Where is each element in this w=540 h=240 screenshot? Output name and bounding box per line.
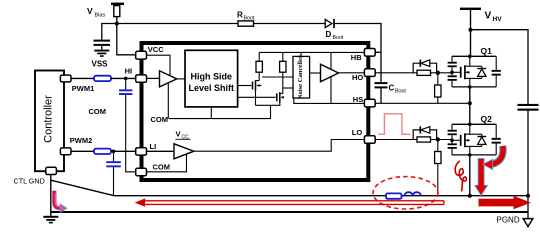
transistor Q2 [448,114,501,157]
resistor gate Q1 [417,70,431,75]
wire LI internal [146,150,174,152]
wire LI cap to ground slant [113,167,115,195]
wire R_Boot to D_Boot [254,23,326,25]
wire noise canceller to HS rail [294,98,365,103]
svg-text:Boot: Boot [333,35,344,41]
svg-text:Bias: Bias [95,13,106,19]
svg-text:VSS: VSS [92,60,109,69]
wire V_HV down to Q1 [470,10,472,56]
resistor (bias, vertical) [114,5,120,24]
node Q2 gate divider [436,137,440,141]
wire HO to gate network Q1 [375,72,417,74]
wire top rail to R_Boot [117,23,238,25]
svg-text:High Side: High Side [191,71,233,81]
wire Q1 source to HS node [469,87,471,124]
capacitor C_Boot [375,82,388,103]
red ringing waveform [455,161,466,192]
svg-text:PWM1: PWM1 [72,84,95,93]
svg-text:PGND: PGND [497,215,520,224]
wire HI cap to COM pin [126,95,136,172]
resistor gate Q2 [417,137,431,142]
resistor gate-source Q1 [435,73,441,104]
resistor parasitic (PWM2, blue) [94,149,111,154]
block High Side Level Shift [185,50,238,107]
wire COM pin to low side buffer [146,155,186,172]
svg-text:Q2: Q2 [481,114,493,124]
label C_Boot [389,84,407,95]
wire HB pin stub [375,51,382,53]
wire to decoupling cap [102,24,117,40]
wire to LI pin [111,150,136,152]
wire PWM1 to HI [71,77,94,79]
wire internal HB rail [259,51,365,53]
wire noise canceller to output buffer [310,72,321,74]
diode anti-parallel Q1 gate [413,60,436,73]
svg-text:Noise Canceller: Noise Canceller [297,55,304,99]
op-amp output buffer (high side) [321,64,339,81]
svg-text:Controller: Controller [42,95,54,143]
transistor M1 (level shift) [238,80,262,105]
wire internal COM rail [169,105,271,118]
pin PWM1 [60,75,94,93]
V_HV supply bar [460,8,481,10]
wire CTL GND down [50,175,52,216]
capacitor (VSS decoupling) [94,40,111,50]
node Q1 gate divider [436,71,440,75]
wire M1 drain to noise canceller [262,76,293,78]
wire HS node to Q1 source [375,102,470,104]
wire resistor to Q2 gate [431,139,453,141]
inductor parasitic trace (blue) [405,192,421,196]
op-amp low side buffer [174,144,194,159]
op-amp input buffer (HI channel) [160,71,177,87]
wire level-shift block to COM rail [210,107,212,119]
node V_Bias junction [115,21,119,25]
red current arrow (vertical down) [475,159,488,196]
node HS switch [468,101,472,105]
wire Q2 source down [469,155,471,196]
resistor parasitic (PWM1, blue) [94,76,111,81]
svg-text:VCC: VCC [148,45,164,54]
red pulse waveform (LO) [378,114,410,134]
svg-text:HB: HB [351,53,362,62]
svg-text:C: C [389,84,395,93]
wire D_Boot to bootstrap node [334,24,381,83]
svg-text:R: R [237,11,243,20]
resistor parasitic trace (blue) [386,193,402,198]
svg-text:Q1: Q1 [481,46,493,56]
pin LI [136,142,156,155]
transistor Q1 [448,46,501,89]
svg-text:V: V [87,6,93,16]
resistor R_Boot [238,21,254,26]
svg-text:LO: LO [352,128,363,137]
pin CTL GND [14,167,57,185]
pin HI [125,67,147,83]
transistor M2 (level shift) [238,92,284,105]
wire LO to gate network Q2 [375,139,417,141]
svg-text:HI: HI [125,67,133,76]
svg-text:COM: COM [151,115,169,124]
Controller box [35,71,64,172]
svg-text:V: V [176,130,181,139]
svg-text:LI: LI [150,142,157,151]
wire PWM2 to LI [71,150,94,152]
red curved arrow (Q2 loop) [483,146,503,170]
label D_Boot [326,30,344,41]
node Q2 source return [468,194,472,198]
wire ground slant [51,180,114,195]
resistor gate-source Q2 [435,140,441,196]
wire buffer to LO pin [194,140,365,152]
wire HI buffer COM reference [167,80,169,119]
svg-text:HS: HS [353,95,363,104]
capacitor DC bus [518,104,539,212]
wire bottom PGND rail [51,211,528,213]
highlight ellipse (red dashed) [373,177,438,209]
ground VSS [94,50,109,57]
wire to HI pin [111,77,136,79]
ground PGND [497,212,533,227]
red return current arrow (long, leftward) [135,198,444,206]
pin PWM2 [60,136,92,155]
wire M2 drain to noise canceller [283,87,293,89]
node bus cap return [526,194,530,198]
wire noise canceller top to HB rail [300,52,302,56]
node LI filter tap [112,150,116,154]
label V_Bias [87,6,105,19]
wire source return line [114,195,528,197]
pin HS [353,95,375,107]
resistor R2 (level shift load) [280,52,286,93]
wire HB/HS rails of output buffer [330,52,332,103]
svg-text:COM: COM [153,163,171,172]
svg-text:COM: COM [89,107,107,116]
label R_Boot [237,11,255,22]
wire V_Bias to VCC pin [117,24,136,55]
wire buffer to level shift [177,78,185,80]
pin HB [351,49,375,63]
label V_HV [485,11,503,24]
svg-text:HV: HV [493,16,503,23]
svg-text:Boot: Boot [395,89,406,95]
pin COM [136,168,147,175]
V_Bias supply bar [111,3,124,5]
ground CTL [43,216,58,224]
svg-text:V: V [485,11,492,22]
capacitor parasitic (HI, blue) [119,78,132,95]
label V_CC (low side buffer supply) [176,130,191,141]
red current arrow (bottom right, rightward) [479,196,532,209]
node HI filter tap [124,77,128,81]
wire resistor to Q1 gate [431,72,453,74]
resistor R1 (level shift load) [256,52,262,80]
svg-text:PWM2: PWM2 [70,136,93,145]
diode D_Boot [325,19,334,28]
node V_HV branch [469,28,473,32]
red/blue curved arrow (CTL GND) [54,191,67,213]
wire VCC internal [146,55,170,76]
svg-text:HO: HO [352,73,363,82]
diode anti-parallel Q2 gate [413,126,436,139]
block Noise Canceller [293,55,310,99]
wire level-shift source rail [256,104,281,106]
pin VCC [136,45,165,59]
pin HO [352,69,375,82]
svg-text:Level Shift: Level Shift [189,83,235,93]
wire HI internal [146,77,159,79]
wire V_HV to bus cap [471,30,529,104]
svg-text:CTL GND: CTL GND [14,176,45,185]
svg-text:D: D [326,30,332,39]
IC gate-driver block outline [142,43,369,180]
capacitor parasitic (LI, blue) [106,151,121,167]
pin LO [352,128,375,143]
wire buffer to HO pin [339,72,365,74]
